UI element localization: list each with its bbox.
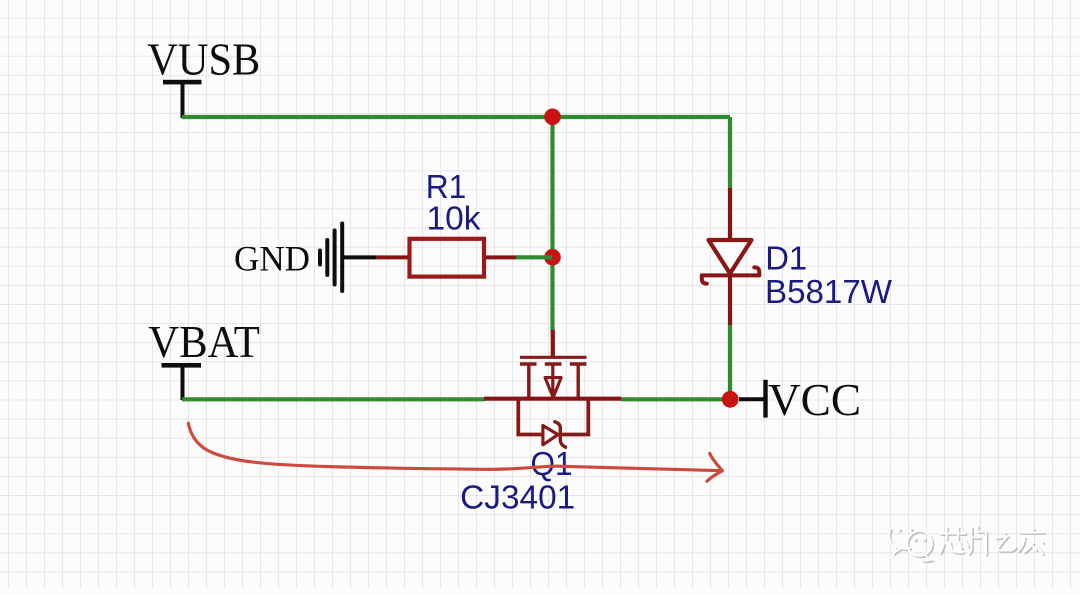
transistor Q1 gate bar xyxy=(520,356,587,359)
watermark logo (chat bubbles) xyxy=(889,528,933,563)
transistor Q1 left leg xyxy=(527,364,530,399)
transistor Q1 substrate arrow head xyxy=(545,378,561,398)
ground connection wire (black) xyxy=(342,255,376,259)
power port VBAT bar xyxy=(162,363,202,368)
transistor Q1 body-diode triangle xyxy=(543,426,558,445)
annotation arrow (freehand) xyxy=(188,423,722,481)
transistor Q1 substrate arrow shaft xyxy=(551,364,554,394)
resistor R1 body xyxy=(410,239,485,277)
power port VCC stub xyxy=(739,397,764,401)
svg-text:Q1: Q1 xyxy=(531,445,573,482)
transistor Q1 body-diode right side xyxy=(562,399,589,435)
ground symbol xyxy=(320,224,342,292)
svg-text:D1: D1 xyxy=(765,240,807,277)
diode D1 bottom pin xyxy=(728,276,732,326)
resistor R1 right pin xyxy=(484,255,517,259)
svg-text:B5817W: B5817W xyxy=(765,273,893,310)
wire R1 to junction xyxy=(516,255,552,259)
wire VBAT horizontal xyxy=(182,397,485,401)
transistor Q1 right leg xyxy=(577,364,580,399)
transistor Q1 body-diode left side xyxy=(518,399,541,435)
junction node VCC xyxy=(722,391,739,408)
junction node at R1 output xyxy=(544,249,561,266)
svg-text:VCC: VCC xyxy=(768,374,861,425)
transistor Q1 source-drain rail xyxy=(484,397,622,401)
watermark text "xin pian zhi jia" hand-drawn glyphs xyxy=(940,526,1045,555)
power port VCC bar xyxy=(763,380,767,418)
svg-text:VUSB: VUSB xyxy=(147,34,260,85)
svg-text:GND: GND xyxy=(234,239,310,279)
diode D1 top pin xyxy=(728,188,732,241)
diode D1 schottky bar xyxy=(702,267,760,283)
resistor R1 left pin xyxy=(376,255,410,259)
junction node at VUSB/R1 column xyxy=(544,109,561,126)
wire D1 to VCC node xyxy=(728,325,732,399)
power port VUSB stem xyxy=(181,81,185,118)
power port VUSB bar xyxy=(163,80,202,85)
diode D1 triangle xyxy=(709,240,752,274)
svg-text:10k: 10k xyxy=(427,199,481,236)
transistor Q1 body-diode schottky bar xyxy=(555,422,566,448)
wire right vertical (to D1) xyxy=(728,117,732,189)
wire center vertical xyxy=(550,117,554,331)
power port VBAT stem xyxy=(181,364,185,400)
svg-text:VBAT: VBAT xyxy=(148,316,259,367)
transistor Q1 channel dashes xyxy=(520,362,586,365)
transistor Q1 gate pin xyxy=(551,330,555,357)
wire VUSB horizontal xyxy=(182,115,730,119)
svg-text:CJ3401: CJ3401 xyxy=(460,479,575,516)
wire Q1 drain to VCC node xyxy=(621,397,730,401)
